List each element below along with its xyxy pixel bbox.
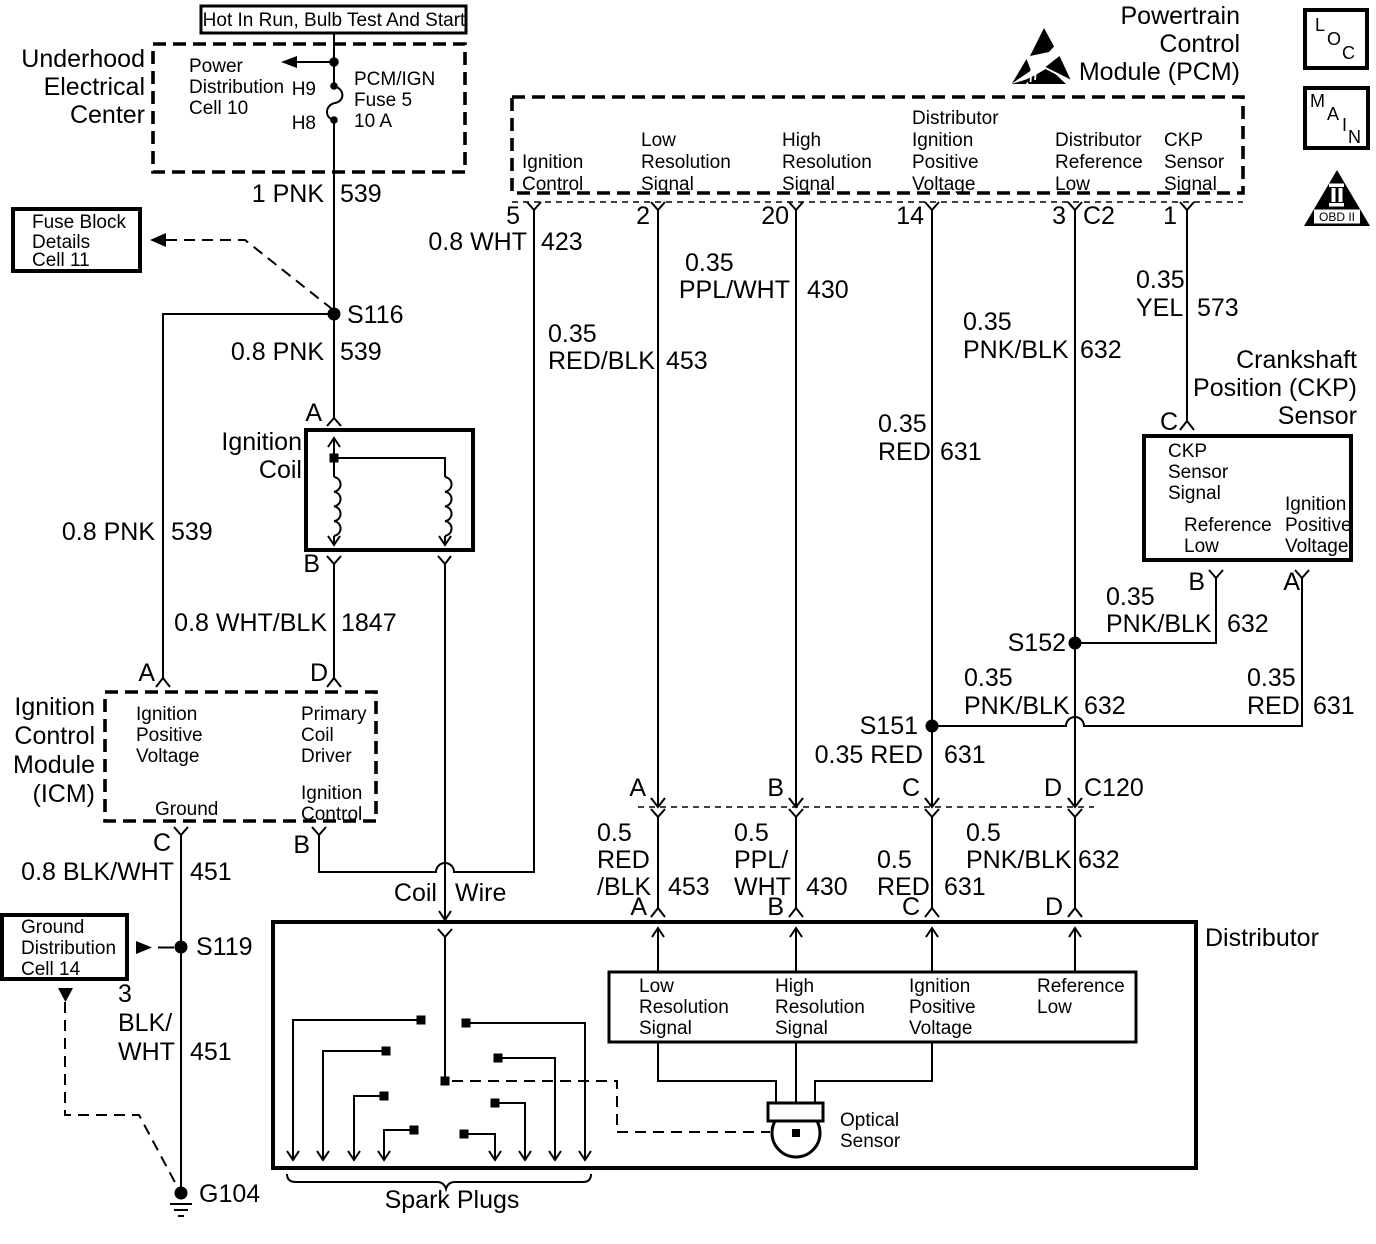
svg-text:S119: S119 — [196, 933, 253, 961]
svg-text:3: 3 — [118, 980, 132, 1008]
optical sensor connector block — [768, 1103, 823, 1121]
svg-text:Ignition: Ignition — [14, 693, 95, 721]
dashed reference path from ground distribution to G104 — [58, 988, 178, 1188]
svg-text:B: B — [1188, 568, 1205, 596]
svg-text:PNK/BLK: PNK/BLK — [964, 692, 1070, 720]
label Low Resolution Signal (PCM pin 2) — [641, 130, 731, 195]
svg-text:Control: Control — [301, 804, 362, 825]
svg-text:Ignition: Ignition — [522, 152, 583, 173]
pin 14 connector — [896, 202, 939, 230]
OBD II icon — [1304, 170, 1370, 226]
svg-text:Coil: Coil — [394, 879, 437, 907]
svg-text:Reference: Reference — [1037, 976, 1125, 997]
ICM pin C connector — [153, 827, 188, 857]
svg-text:Low: Low — [639, 976, 674, 997]
svg-text:B: B — [293, 831, 310, 859]
svg-text:Resolution: Resolution — [639, 997, 729, 1018]
label Powertrain Control Module (PCM) — [1079, 2, 1240, 86]
C120 cavity C connector — [902, 774, 939, 817]
svg-text:Distributor: Distributor — [1055, 130, 1142, 151]
label 0.35 YEL 573 — [1136, 266, 1239, 322]
distributor internal arrow B — [790, 928, 802, 972]
svg-text:Coil: Coil — [259, 456, 302, 484]
svg-text:632: 632 — [1227, 610, 1269, 638]
svg-text:Cell 11: Cell 11 — [32, 250, 90, 271]
svg-text:453: 453 — [666, 347, 708, 375]
svg-text:YEL: YEL — [1136, 294, 1183, 322]
label PCM/IGN Fuse 5 10 A — [354, 69, 435, 132]
svg-text:Primary: Primary — [301, 704, 367, 725]
svg-text:Positive: Positive — [909, 997, 976, 1018]
label Ignition Positive Voltage (ICM pin A) — [136, 704, 203, 767]
fuse F5 element — [327, 86, 342, 120]
svg-text:Signal: Signal — [1168, 483, 1221, 504]
svg-text:I: I — [1342, 115, 1347, 135]
svg-text:453: 453 — [668, 873, 710, 901]
wire 453 PCM pin 2 to C120 A — [657, 210, 659, 807]
svg-text:430: 430 — [806, 873, 848, 901]
ignition coil internal arrow up — [328, 438, 340, 458]
svg-text:Sensor: Sensor — [1168, 462, 1229, 483]
svg-text:0.8 PNK: 0.8 PNK — [62, 518, 155, 546]
svg-text:Cell 14: Cell 14 — [21, 959, 81, 980]
svg-text:A: A — [630, 893, 647, 921]
svg-text:0.35 RED: 0.35 RED — [815, 741, 923, 769]
label 0.35 PNK/BLK 632 (below S152) — [964, 664, 1126, 720]
svg-text:S152: S152 — [1008, 629, 1066, 657]
label CKP Sensor Signal (PCM pin 1) — [1164, 130, 1225, 195]
label 0.5 PPL/ WHT 430 — [734, 819, 848, 901]
svg-text:Cell 10: Cell 10 — [189, 98, 248, 119]
svg-text:High: High — [775, 976, 814, 997]
svg-text:0.5: 0.5 — [877, 846, 912, 874]
svg-text:0.8 WHT/BLK: 0.8 WHT/BLK — [174, 609, 327, 637]
svg-text:0.5: 0.5 — [734, 819, 769, 847]
svg-text:B: B — [767, 893, 784, 921]
svg-text:Crankshaft: Crankshaft — [1236, 346, 1357, 374]
svg-text:RED/BLK: RED/BLK — [548, 347, 655, 375]
svg-text:539: 539 — [171, 518, 213, 546]
svg-text:PNK/BLK: PNK/BLK — [1106, 610, 1212, 638]
svg-text:Module: Module — [13, 751, 95, 779]
wire 451 ICM C to G104 — [180, 835, 182, 1193]
label Ignition Positive Voltage (CKP pin A) — [1285, 494, 1352, 557]
svg-text:631: 631 — [940, 438, 982, 466]
pin 1 connector — [1163, 202, 1194, 230]
ignition coil internal wire to secondary — [334, 458, 445, 477]
svg-text:Ground: Ground — [21, 917, 84, 938]
ground G104 — [170, 1180, 260, 1216]
hot feed box "Hot In Run, Bulb Test And Start" — [201, 6, 466, 33]
label 0.35 PNK/BLK 632 (CKP B leg) — [1106, 583, 1269, 638]
distributor pin B connector — [767, 893, 803, 921]
label Ignition Control Module (ICM) — [13, 693, 95, 808]
ICM pin D connector — [310, 659, 341, 687]
label Coil Wire — [394, 879, 506, 907]
svg-text:2: 2 — [636, 202, 650, 230]
wire from hot feed into fuse — [333, 33, 335, 86]
svg-text:H8: H8 — [292, 113, 316, 134]
svg-text:0.8 BLK/WHT: 0.8 BLK/WHT — [21, 858, 174, 886]
svg-text:PPL/WHT: PPL/WHT — [679, 276, 790, 304]
svg-text:D: D — [1044, 774, 1062, 802]
label Reference Low (CKP pin B) — [1184, 515, 1272, 557]
LOC grid icon — [1305, 10, 1367, 68]
svg-text:0.5: 0.5 — [597, 819, 632, 847]
svg-text:PNK/BLK: PNK/BLK — [966, 846, 1072, 874]
label 0.5 RED /BLK 453 — [597, 819, 710, 901]
svg-text:A: A — [629, 774, 646, 802]
label High Resolution Signal (PCM pin 20) — [782, 130, 872, 195]
svg-text:539: 539 — [340, 338, 382, 366]
wire 1847 coil B to ICM D — [333, 564, 335, 678]
svg-text:631: 631 — [1313, 692, 1355, 720]
node junction at fuse top — [329, 57, 339, 67]
svg-text:Positive: Positive — [136, 725, 203, 746]
svg-text:Reference: Reference — [1055, 152, 1143, 173]
label 0.5 PNK/BLK 632 — [966, 819, 1120, 874]
svg-text:C: C — [153, 829, 171, 857]
svg-text:Control: Control — [522, 174, 583, 195]
pin 5 connector — [506, 202, 541, 230]
svg-text:Driver: Driver — [301, 746, 352, 767]
svg-text:1847: 1847 — [341, 609, 397, 637]
label 0.8 PNK 539 (left branch) — [62, 518, 213, 546]
label 0.5 RED 631 — [877, 846, 986, 901]
svg-text:539: 539 — [340, 180, 382, 208]
spark plugs brace — [287, 1174, 591, 1189]
svg-text:Signal: Signal — [775, 1018, 828, 1039]
svg-text:Voltage: Voltage — [912, 174, 975, 195]
svg-text:Coil: Coil — [301, 725, 334, 746]
wire 631 CKP A to S151 with hop — [932, 578, 1302, 726]
pin 20 connector — [761, 202, 803, 230]
svg-text:G104: G104 — [199, 1180, 260, 1208]
ignition coil secondary winding — [439, 477, 452, 545]
coil wire to rotor terminal — [444, 937, 446, 1077]
svg-text:5: 5 — [506, 202, 520, 230]
svg-text:3: 3 — [1052, 202, 1066, 230]
svg-text:Sensor: Sensor — [1278, 402, 1357, 430]
C120 cavity A connector — [629, 774, 665, 817]
svg-text:Sensor: Sensor — [840, 1131, 901, 1152]
label Reference Low (distributor D) — [1037, 976, 1125, 1018]
distributor pin D connector — [1045, 893, 1082, 921]
label Ignition Control (PCM pin 5) — [522, 152, 583, 195]
C120 cavity D connector — [1044, 774, 1144, 817]
fuse block details reference box — [13, 209, 140, 271]
svg-text:Resolution: Resolution — [775, 997, 865, 1018]
svg-text:1 PNK: 1 PNK — [252, 180, 325, 208]
label 0.8 PNK 539 (below S116) — [231, 338, 382, 366]
svg-text:Signal: Signal — [639, 1018, 692, 1039]
label 3 BLK/ WHT 451 — [118, 980, 232, 1066]
label Distributor Ignition Positive Voltage (PCM pin 14) — [912, 108, 999, 195]
svg-text:Distributor: Distributor — [1205, 924, 1319, 952]
svg-text:A: A — [1283, 568, 1300, 596]
label 0.35 RED 631 (CKP A leg) — [1247, 664, 1355, 720]
svg-text:Fuse Block: Fuse Block — [32, 212, 126, 233]
svg-text:Voltage: Voltage — [1285, 536, 1348, 557]
svg-text:C120: C120 — [1084, 774, 1144, 802]
CKP sensor pin B connector — [1188, 568, 1223, 596]
svg-text:S116: S116 — [347, 301, 404, 329]
ignition coil internal junction — [330, 454, 339, 463]
ICM dashed box — [105, 692, 376, 821]
label Primary Coil Driver (ICM pin D) — [301, 704, 367, 767]
label 0.35 PNK/BLK 632 (upper) — [963, 308, 1122, 364]
svg-text:632: 632 — [1084, 692, 1126, 720]
svg-text:Distribution: Distribution — [189, 77, 284, 98]
svg-text:Signal: Signal — [641, 174, 694, 195]
svg-text:N: N — [1348, 127, 1361, 147]
wire 573 PCM pin 1 to CKP sensor C — [1186, 210, 1188, 421]
svg-text:632: 632 — [1080, 336, 1122, 364]
wire 632 PCM pin 3 to C120 D — [1074, 210, 1076, 807]
label High Resolution Signal (distributor B) — [775, 976, 865, 1039]
svg-text:C2: C2 — [1083, 202, 1115, 230]
svg-text:Signal: Signal — [782, 174, 835, 195]
wire 430 PCM pin 20 to C120 B — [795, 210, 797, 807]
svg-text:Control: Control — [14, 722, 95, 750]
svg-text:Spark Plugs: Spark Plugs — [385, 1186, 520, 1214]
distributor pin C connector — [902, 893, 939, 921]
spark plug wire 4 — [378, 1126, 419, 1161]
svg-text:CKP: CKP — [1164, 130, 1203, 151]
svg-text:WHT: WHT — [118, 1038, 175, 1066]
label 0.35 RED 631 — [878, 410, 982, 466]
label Ignition Control (ICM pin B) — [301, 783, 362, 825]
ignition coil primary winding — [328, 458, 341, 545]
svg-text:Powertrain: Powertrain — [1121, 2, 1241, 30]
svg-text:0.5: 0.5 — [966, 819, 1001, 847]
svg-text:Resolution: Resolution — [641, 152, 731, 173]
svg-text:PCM/IGN: PCM/IGN — [354, 69, 435, 90]
spark plug wire 2 — [317, 1047, 391, 1161]
svg-text:Module (PCM): Module (PCM) — [1079, 58, 1240, 86]
label Distributor Reference Low (PCM pin 3) — [1055, 130, 1143, 195]
spark plug wire 3 — [348, 1092, 389, 1161]
svg-text:A: A — [1327, 104, 1339, 124]
CKP sensor box — [1144, 436, 1351, 560]
wire 632 CKP B to S152 — [1075, 578, 1216, 643]
optical sensor circle — [772, 1109, 820, 1157]
wire 539 fuse to S116 to ignition coil A — [333, 120, 335, 418]
svg-text:14: 14 — [896, 202, 924, 230]
svg-text:L: L — [1315, 15, 1325, 35]
svg-text:0.8 WHT: 0.8 WHT — [428, 228, 527, 256]
svg-text:Center: Center — [70, 101, 145, 129]
label 0.35 PPL/WHT 430 — [679, 249, 849, 304]
svg-text:A: A — [138, 659, 155, 687]
splice S119 — [175, 933, 253, 961]
svg-text:CKP: CKP — [1168, 441, 1207, 462]
svg-text:OBD II: OBD II — [1319, 210, 1355, 224]
splice S151 — [860, 712, 939, 740]
distributor internal arrow D — [1069, 928, 1081, 972]
svg-text:Wire: Wire — [455, 879, 506, 907]
svg-text:0.8 PNK: 0.8 PNK — [231, 338, 324, 366]
distributor internal arrow A — [652, 928, 664, 972]
distributor internal arrow C — [926, 928, 938, 972]
fuse F5 terminal H9 — [330, 82, 338, 90]
svg-text:Fuse 5: Fuse 5 — [354, 90, 412, 111]
CKP sensor pin C connector — [1160, 408, 1194, 436]
svg-text:Distributor: Distributor — [912, 108, 999, 129]
svg-text:451: 451 — [190, 1038, 232, 1066]
svg-text:Ignition: Ignition — [1285, 494, 1346, 515]
svg-text:Positive: Positive — [1285, 515, 1352, 536]
ignition coil box — [306, 430, 473, 550]
ignition coil pin B connector — [303, 550, 341, 578]
svg-text:Voltage: Voltage — [136, 746, 199, 767]
label Crankshaft Position (CKP) Sensor — [1193, 346, 1357, 430]
svg-text:B: B — [303, 550, 320, 578]
wire arrow to power distribution — [281, 56, 334, 68]
svg-text:PNK/BLK: PNK/BLK — [963, 336, 1069, 364]
MAIN grid icon — [1305, 88, 1368, 148]
distributor pin A connector — [630, 893, 665, 921]
rotor terminal — [441, 1077, 450, 1086]
underhood electrical center dashed box — [153, 44, 465, 172]
optical sensor center — [792, 1129, 800, 1137]
fuse F5 terminal H8 — [330, 116, 338, 124]
label CKP Sensor Signal (CKP pin C) — [1168, 441, 1229, 504]
svg-text:C: C — [1160, 408, 1178, 436]
svg-text:Signal: Signal — [1164, 174, 1217, 195]
svg-text:BLK/: BLK/ — [118, 1009, 172, 1037]
coil wire connector into distributor — [438, 929, 452, 937]
wire 453 C120 A to distributor A — [657, 817, 659, 908]
wire 631 PCM pin 14 to C120 C — [931, 210, 933, 807]
svg-text:0.35: 0.35 — [964, 664, 1013, 692]
wire 430 C120 B to distributor B — [795, 817, 797, 908]
wire 423 ICM B to PCM pin 5 with hop over coil wire — [319, 210, 534, 872]
splice S116 — [328, 301, 404, 329]
wire 631 C120 C to distributor C — [931, 817, 933, 908]
connector C120 line — [638, 806, 1094, 808]
svg-text:Hot In Run, Bulb Test And Star: Hot In Run, Bulb Test And Start — [203, 10, 466, 31]
spark plug wire 5 — [462, 1019, 592, 1161]
spark plug wire 7 — [491, 1099, 532, 1161]
svg-text:High: High — [782, 130, 821, 151]
svg-text:Ignition: Ignition — [912, 130, 973, 151]
reference arrow to S119 — [136, 941, 174, 954]
label 0.35 RED/BLK 453 — [548, 320, 708, 375]
svg-text:H9: H9 — [292, 79, 316, 100]
wire 632 C120 D to distributor D — [1074, 817, 1076, 908]
svg-text:C: C — [902, 893, 920, 921]
distributor terminal label box — [609, 972, 1136, 1042]
wire low resolution signal to optical sensor — [658, 1042, 776, 1103]
coil wire from secondary tower to distributor — [439, 564, 451, 920]
svg-text:20: 20 — [761, 202, 789, 230]
svg-text:631: 631 — [944, 873, 986, 901]
svg-text:Low: Low — [1184, 536, 1219, 557]
svg-text:Ignition: Ignition — [909, 976, 970, 997]
svg-text:M: M — [1310, 91, 1325, 111]
svg-text:Position (CKP): Position (CKP) — [1193, 374, 1357, 402]
svg-text:0.35: 0.35 — [685, 249, 734, 277]
svg-text:Ignition: Ignition — [136, 704, 197, 725]
dashed rotor shaft link — [452, 1081, 770, 1132]
svg-text:RED: RED — [878, 438, 931, 466]
svg-text:S151: S151 — [860, 712, 918, 740]
svg-text:Resolution: Resolution — [782, 152, 872, 173]
distributor box — [273, 922, 1196, 1168]
label Underhood Electrical Center — [21, 45, 145, 129]
svg-text:0.35: 0.35 — [548, 320, 597, 348]
ignition coil secondary tower connector — [438, 556, 451, 564]
label 0.8 WHT/BLK 1847 — [174, 609, 396, 637]
svg-text:C: C — [902, 774, 920, 802]
wire ignition positive voltage to optical sensor — [815, 1042, 932, 1103]
svg-text:Ignition: Ignition — [301, 783, 362, 804]
ICM pin A connector — [138, 659, 170, 687]
svg-text:Underhood: Underhood — [21, 45, 145, 73]
svg-text:0.35: 0.35 — [1247, 664, 1296, 692]
svg-text:Voltage: Voltage — [909, 1018, 972, 1039]
C120 cavity B connector — [767, 774, 803, 817]
wire 539 branch from S116 to ICM A — [163, 314, 334, 678]
svg-text:1: 1 — [1163, 202, 1177, 230]
svg-text:D: D — [1045, 893, 1063, 921]
label Ignition Positive Voltage (distributor C) — [909, 976, 976, 1039]
svg-text:451: 451 — [190, 858, 232, 886]
pin 3 connector C2 — [1052, 202, 1115, 230]
svg-text:Ground: Ground — [155, 799, 218, 820]
svg-text:RED: RED — [1247, 692, 1300, 720]
svg-text:Low: Low — [641, 130, 676, 151]
ESD sensitivity symbol — [1012, 28, 1071, 87]
svg-text:Low: Low — [1037, 997, 1072, 1018]
svg-text:B: B — [767, 774, 784, 802]
svg-text:RED: RED — [597, 846, 650, 874]
label Low Resolution Signal (distributor A) — [639, 976, 729, 1039]
svg-text:Ignition: Ignition — [221, 428, 302, 456]
svg-text:573: 573 — [1197, 294, 1239, 322]
svg-text:Sensor: Sensor — [1164, 152, 1225, 173]
svg-text:423: 423 — [541, 228, 583, 256]
spark plug wire 1 — [287, 1016, 426, 1161]
svg-text:0.35: 0.35 — [878, 410, 927, 438]
label 0.8 WHT 423 — [428, 228, 582, 256]
spark plug wire 8 — [460, 1130, 502, 1161]
label 1 PNK 539 — [252, 180, 382, 208]
wire high resolution signal to optical sensor — [795, 1042, 797, 1103]
svg-text:Distribution: Distribution — [21, 938, 116, 959]
label Optical Sensor — [840, 1110, 901, 1152]
dashed reference arrow to fuse block details — [150, 233, 332, 309]
label 0.8 BLK/WHT 451 — [21, 858, 232, 886]
svg-text:D: D — [310, 659, 328, 687]
svg-text:Control: Control — [1159, 30, 1240, 58]
label Power Distribution Cell 10 — [189, 56, 284, 119]
splice S152 — [1008, 629, 1082, 657]
svg-text:(ICM): (ICM) — [33, 780, 95, 808]
label Ignition Coil — [221, 428, 302, 484]
svg-text:Low: Low — [1055, 174, 1090, 195]
PCM dashed box — [512, 97, 1243, 193]
ICM pin B connector — [293, 827, 326, 859]
pin 2 connector — [636, 202, 665, 230]
CKP sensor pin A connector — [1283, 568, 1309, 596]
svg-text:0.35: 0.35 — [1136, 266, 1185, 294]
svg-text:0.35: 0.35 — [963, 308, 1012, 336]
PCM connector face dashed line — [512, 201, 1243, 203]
ground distribution reference box — [2, 915, 127, 980]
svg-text:Reference: Reference — [1184, 515, 1272, 536]
